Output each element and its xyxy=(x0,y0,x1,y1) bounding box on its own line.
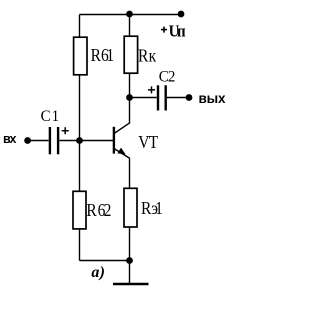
svg-text:2: 2 xyxy=(168,68,176,86)
svg-text:Uп: Uп xyxy=(169,22,186,40)
svg-text:1: 1 xyxy=(52,108,60,126)
svg-text:1: 1 xyxy=(106,45,114,65)
svg-text:R: R xyxy=(86,200,97,220)
svg-text:1: 1 xyxy=(155,198,163,218)
svg-text:R: R xyxy=(138,46,149,66)
svg-text:вых: вых xyxy=(199,91,226,106)
svg-text:2: 2 xyxy=(104,200,112,220)
svg-text:а): а) xyxy=(91,264,105,281)
svg-text:х: х xyxy=(10,132,17,146)
svg-text:к: к xyxy=(149,46,157,66)
svg-text:C: C xyxy=(41,108,51,126)
svg-text:T: T xyxy=(149,132,158,152)
